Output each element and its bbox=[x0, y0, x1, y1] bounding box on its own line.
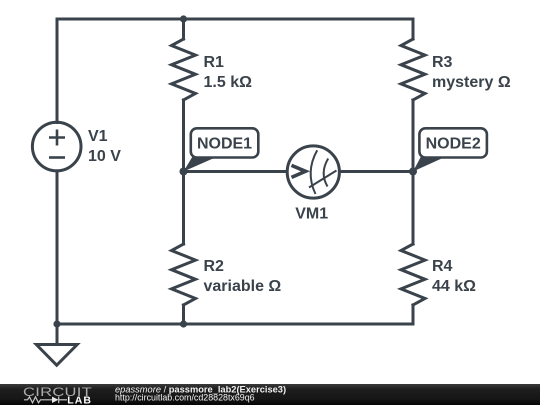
wire NODE2 to R4 bbox=[412, 172, 415, 245]
svg-text:VM1: VM1 bbox=[295, 206, 328, 223]
label R3 value bbox=[432, 54, 511, 91]
node NODE1 dot bbox=[180, 168, 188, 176]
label V1 value bbox=[88, 128, 121, 165]
label R1 value bbox=[204, 54, 253, 91]
svg-text:V1: V1 bbox=[88, 128, 108, 145]
wire NODE1 to R2 bbox=[182, 172, 185, 245]
node NODE1 label bbox=[191, 128, 258, 157]
svg-text:NODE2: NODE2 bbox=[426, 136, 481, 153]
svg-text:mystery Ω: mystery Ω bbox=[432, 74, 511, 91]
svg-text:LAB: LAB bbox=[67, 394, 92, 405]
voltage source V1 bbox=[32, 122, 81, 171]
resistor R2 bbox=[172, 244, 196, 305]
footer bar bbox=[0, 384, 540, 405]
resistor R1 bbox=[172, 39, 196, 100]
svg-text:variable Ω: variable Ω bbox=[204, 278, 282, 295]
svg-text:R3: R3 bbox=[432, 54, 453, 71]
label R4 value bbox=[432, 258, 476, 295]
wire voltmeter to NODE2 bbox=[340, 170, 414, 173]
wire R4 bottom stub bbox=[412, 305, 415, 324]
svg-text:R2: R2 bbox=[204, 258, 225, 275]
wire left rail lower bbox=[56, 171, 59, 324]
label R2 value bbox=[204, 258, 282, 295]
resistor R4 bbox=[401, 244, 425, 305]
node NODE1 pointer bbox=[184, 157, 218, 172]
svg-text:10 V: 10 V bbox=[88, 148, 121, 165]
ground bbox=[36, 345, 77, 366]
svg-text:NODE1: NODE1 bbox=[197, 136, 252, 153]
wire R1 to NODE1 bbox=[182, 100, 185, 172]
junction dot bottom left bbox=[53, 320, 60, 327]
wire R3 top stub bbox=[412, 19, 415, 39]
wire R2 bottom stub bbox=[182, 305, 185, 324]
wire R3 to NODE2 bbox=[412, 100, 415, 172]
wire bottom rail bbox=[57, 323, 413, 326]
svg-text:44 kΩ: 44 kΩ bbox=[432, 278, 476, 295]
wire R1 top stub bbox=[182, 19, 185, 39]
wire NODE1 to voltmeter bbox=[184, 170, 289, 173]
svg-text:R4: R4 bbox=[432, 258, 453, 275]
node NODE2 label bbox=[419, 128, 487, 157]
node NODE2 pointer bbox=[413, 157, 446, 172]
junction dot top bbox=[180, 15, 187, 22]
voltmeter VM1 bbox=[287, 146, 339, 198]
CircuitLab logo resistor zigzag and diode bbox=[24, 396, 59, 403]
svg-text:R1: R1 bbox=[204, 54, 225, 71]
wire left rail upper bbox=[56, 19, 59, 123]
svg-text:http://circuitlab.com/cd28828t: http://circuitlab.com/cd28828tx69q6 bbox=[115, 392, 255, 402]
node NODE2 dot bbox=[409, 168, 417, 176]
resistor R3 bbox=[401, 39, 425, 100]
junction dot bottom center bbox=[180, 320, 187, 327]
svg-text:1.5 kΩ: 1.5 kΩ bbox=[204, 74, 253, 91]
wire top rail bbox=[57, 18, 413, 21]
wire ground stub bbox=[56, 324, 59, 345]
